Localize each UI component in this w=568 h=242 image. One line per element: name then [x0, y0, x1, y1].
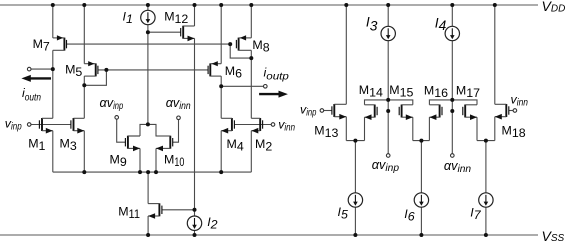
junction VSS M11 source — [146, 233, 150, 237]
wire M4 source down to bus — [220, 131, 222, 172]
junction node ioutn — [51, 67, 55, 71]
wire M15 drain wrap — [388, 100, 413, 105]
terminal ioutp — [264, 85, 268, 89]
wire I4 to VDD — [451, 5, 453, 26]
wire I4 to M16 M17 drains — [451, 41, 453, 100]
transistor M12 — [181, 26, 195, 42]
current source I1 — [141, 10, 155, 24]
wire M2 source down to bus — [250, 131, 252, 172]
wire alpha-vinp terminal to M9 gate — [117, 119, 126, 142]
junction node M14 M15 gates — [386, 109, 390, 113]
wire I4 column gates segment — [451, 100, 453, 111]
transistor M18 — [495, 104, 509, 120]
transistor M1 — [39, 118, 52, 134]
terminal vinn right — [513, 109, 517, 113]
wire M11 source to VSS — [147, 216, 149, 235]
wire M9 source to bus — [139, 148, 141, 172]
wire M17 source down — [476, 117, 478, 140]
current source I3 — [381, 26, 395, 40]
transistor M16 — [429, 105, 442, 121]
junction VSS I7 — [484, 233, 488, 237]
terminal vinp left — [27, 123, 31, 127]
wire vinp to M13 gate — [324, 110, 332, 112]
wire I1 to VDD — [147, 5, 149, 10]
terminal vinp right — [320, 109, 324, 113]
junction bus M11 drain — [146, 170, 150, 174]
wire M14 drain wrap — [365, 100, 389, 105]
wire M6 drain to output node — [220, 76, 222, 86]
transistor M3 — [71, 118, 84, 134]
wire M16 drain wrap — [429, 100, 452, 105]
junction node M8 drain — [249, 56, 253, 60]
junction node M12 gate — [146, 30, 150, 34]
wire M8 gate-drain loop — [230, 44, 251, 58]
junction bus M4 source — [219, 170, 223, 174]
wire bus to M11 drain — [147, 172, 149, 204]
wire M1 source down to bus — [52, 131, 54, 172]
wire M8 source to VDD — [250, 5, 252, 38]
junction node M16 M17 gates — [450, 109, 454, 113]
junction VSS I6 — [419, 233, 423, 237]
wire M18 drain to VDD — [494, 5, 496, 104]
transistor M11 — [148, 203, 162, 219]
wire I2 to VSS — [194, 230, 196, 235]
wire I3 to VDD — [387, 5, 389, 26]
transistor M7 — [53, 35, 67, 50]
junction VSS I5 — [353, 233, 357, 237]
junction VDD I1 — [146, 3, 150, 7]
transistor M13 — [332, 104, 346, 120]
junction bus M3 source — [82, 170, 86, 174]
svg-text:I4: I4 — [435, 16, 447, 33]
wire M7 gate to M8 gate — [67, 43, 231, 45]
transistor M17 — [463, 105, 477, 121]
wire I1 bottom column to M9/M10 drains — [147, 25, 149, 125]
wire I4 column to alpha-vinn terminal — [451, 111, 453, 154]
junction node M5 drain — [82, 83, 86, 87]
wire alpha-vinn terminal to M10 gate — [173, 120, 179, 143]
wire vinn to M2 M4 gates — [234, 124, 271, 126]
junction node M9 M10 drains — [146, 122, 150, 126]
transistor M14 — [365, 105, 378, 121]
wire node line I6 — [413, 140, 430, 142]
terminal ioutn — [27, 67, 31, 71]
wire node line I5 — [346, 140, 364, 142]
VSS rail — [0, 234, 538, 236]
junction node I7 top — [484, 139, 488, 143]
wire M12 source bias column down to M11 gate — [194, 38, 196, 210]
wire M5 drain to node — [83, 76, 85, 85]
wire M15 source down — [412, 117, 414, 140]
transistor M2 — [251, 118, 262, 134]
output arrow ioutn — [21, 75, 51, 82]
wire M6 source to VDD — [220, 5, 222, 64]
wire M14 source down — [364, 117, 366, 140]
wire I3 to M14 M15 drains — [387, 41, 389, 100]
terminal vinn left — [271, 123, 275, 127]
wire M7 source to VDD — [52, 5, 54, 38]
transistor M4 — [221, 118, 234, 134]
wire I6 column — [420, 141, 422, 193]
transistor M6 — [208, 61, 221, 76]
junction node I5 top — [353, 139, 357, 143]
wire M13 source down — [345, 117, 347, 141]
junction node M5 gate — [104, 68, 108, 72]
junction VDD M12 drain — [193, 3, 197, 7]
wire M5 gate to M6 gate — [98, 69, 208, 71]
current source I6 — [414, 193, 428, 207]
junction node M8 gate — [228, 42, 232, 46]
wire M8 drain column to M2 drain — [250, 50, 252, 118]
wire M13 drain to VDD — [345, 5, 347, 104]
wire node line I7 — [477, 140, 495, 142]
wire ioutn tap — [31, 68, 53, 70]
junction VDD M5 source — [82, 3, 86, 7]
wire M7 drain / ioutn / M1 drain column — [52, 50, 54, 118]
junction VSS I2 — [193, 233, 197, 237]
wire output node to M4 drain — [220, 86, 222, 118]
current source I2 — [187, 216, 201, 230]
junction node I6 top — [419, 139, 423, 143]
terminal alpha-vinn right — [451, 154, 455, 158]
wire M12 drain to VDD — [194, 5, 196, 26]
wire I3 column to alpha-vinp terminal — [387, 111, 389, 154]
junction VDD M7 source — [51, 3, 55, 7]
junction node M11 gate — [193, 208, 197, 212]
current source I5 — [348, 193, 362, 207]
junction VDD M8 source — [249, 3, 253, 7]
junction bus M10 source — [154, 170, 158, 174]
junction VDD M18 drain — [493, 3, 497, 7]
junction node M16 M17 drains — [450, 98, 454, 102]
output arrow ioutp — [259, 91, 288, 98]
wire M10 source to bus — [155, 148, 157, 172]
transistor M15 — [399, 105, 413, 121]
wire M17 drain wrap — [452, 100, 477, 105]
transistor M10 — [156, 136, 173, 152]
wire M5 gate-drain loop — [84, 70, 106, 85]
junction VDD I3 — [386, 3, 390, 7]
terminal alpha-vinp right — [386, 154, 390, 158]
wire I7 to VSS — [485, 207, 487, 235]
transistor M8 — [236, 35, 251, 50]
current source I4 — [445, 26, 459, 40]
transistor M9 — [125, 136, 140, 152]
junction VDD I4 — [450, 3, 454, 7]
wire I5 to VSS — [354, 207, 356, 235]
wire I3 column gates segment — [387, 100, 389, 111]
wire M5 source to VDD — [83, 5, 85, 64]
wire I5 column — [354, 141, 356, 193]
wire vinn to M18 gate — [509, 110, 513, 112]
current source I7 — [479, 193, 493, 207]
terminal alpha-vinn left — [177, 116, 181, 120]
wire common source bus — [53, 171, 252, 173]
junction node ioutp — [219, 84, 223, 88]
wire I7 column — [485, 141, 487, 193]
junction node M14 M15 drains — [386, 98, 390, 102]
wire node B to M3 drain — [83, 85, 85, 118]
wire bias column to I2 — [194, 210, 196, 216]
junction VDD M13 drain — [344, 3, 348, 7]
terminal alpha-vinp left — [115, 116, 119, 120]
wire M18 source down — [494, 117, 496, 141]
wire ioutp tap — [221, 85, 263, 87]
junction VDD M6 source — [219, 3, 223, 7]
wire M9 drain wrap — [128, 135, 140, 137]
transistor M5 — [84, 61, 98, 76]
wire I6 to VSS — [420, 207, 422, 235]
VDD rail — [0, 4, 538, 6]
wire M12 gate to I1 column — [148, 31, 181, 33]
junction bus M9 source — [138, 170, 142, 174]
wire M3 source down to bus — [83, 131, 85, 172]
wire vinp to M1 M3 gates — [31, 124, 71, 126]
wire M11 gate to bias column — [162, 209, 195, 211]
wire M16 source down — [428, 117, 430, 140]
